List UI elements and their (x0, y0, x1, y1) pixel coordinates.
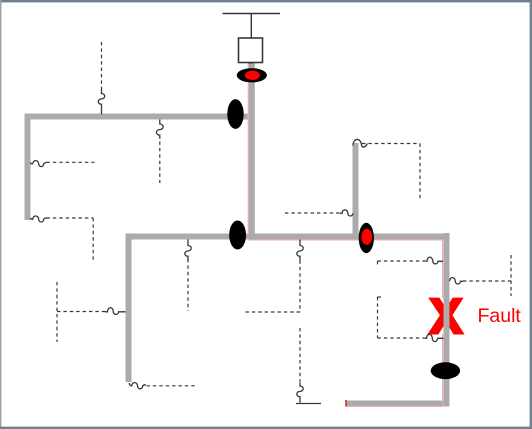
svg-text:Fault: Fault (478, 305, 522, 327)
